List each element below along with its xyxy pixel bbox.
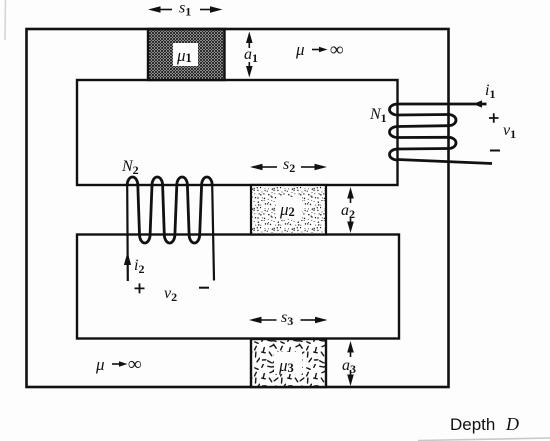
svg-text:μ: μ	[295, 40, 305, 59]
svg-text:i2: i2	[134, 257, 144, 276]
scan artifact streak bottom right	[418, 438, 550, 441]
wire i1 input lead	[398, 103, 487, 106]
gap material mu1 block	[148, 29, 225, 80]
svg-text:s2: s2	[283, 156, 295, 175]
current arrow i2 (pointing up along left lead)	[124, 252, 131, 265]
wire v1 bottom terminal lead	[398, 160, 493, 164]
coil N2 right terminal lead	[212, 185, 214, 281]
svg-text:D: D	[505, 414, 519, 434]
coil N2 winding on center core bar	[127, 177, 212, 243]
scan artifact streak top left	[4, 0, 7, 40]
svg-text:∞: ∞	[330, 40, 344, 61]
dimension s2 (middle gap width)	[250, 164, 327, 171]
svg-text:N1: N1	[369, 106, 387, 125]
v1 minus sign	[490, 150, 500, 152]
svg-text:N2: N2	[121, 158, 139, 177]
magnetic core outline (outer boundary, mu -> infinity)	[27, 29, 449, 387]
gap material mu3 block	[251, 339, 326, 387]
svg-text:s3: s3	[281, 309, 293, 328]
coil N1 winding on right core leg	[390, 104, 457, 160]
svg-text:a2: a2	[341, 202, 355, 221]
v1 plus sign	[489, 113, 499, 122]
svg-text:i1: i1	[485, 82, 495, 101]
svg-text:a3: a3	[342, 357, 356, 376]
current arrow i1 (pointing left into coil)	[473, 100, 482, 107]
label mu -> infinity (bottom core region)	[95, 354, 142, 375]
dimension a2 (middle gap height)	[347, 187, 354, 233]
dimension s3 (bottom gap width)	[249, 317, 328, 324]
core window lower (inner rectangle)	[77, 235, 399, 339]
v2 minus sign	[199, 287, 209, 289]
svg-text:a1: a1	[244, 46, 258, 65]
dimension a3 (bottom gap height)	[347, 341, 354, 386]
svg-text:∞: ∞	[128, 354, 142, 375]
v2 plus sign	[135, 283, 145, 293]
dimension s1 (top gap width)	[148, 6, 223, 13]
svg-text:v1: v1	[503, 122, 516, 141]
gap material mu2 block	[251, 185, 326, 235]
coil N2 left terminal lead	[126, 185, 129, 281]
svg-text:s1: s1	[179, 0, 191, 19]
label mu -> infinity (top core region)	[295, 40, 344, 61]
core window upper (inner rectangle)	[77, 80, 398, 185]
dimension a1 (top gap height)	[246, 32, 253, 78]
svg-text:μ: μ	[95, 355, 105, 374]
svg-text:v2: v2	[164, 285, 177, 304]
svg-text:Depth: Depth	[450, 415, 495, 434]
